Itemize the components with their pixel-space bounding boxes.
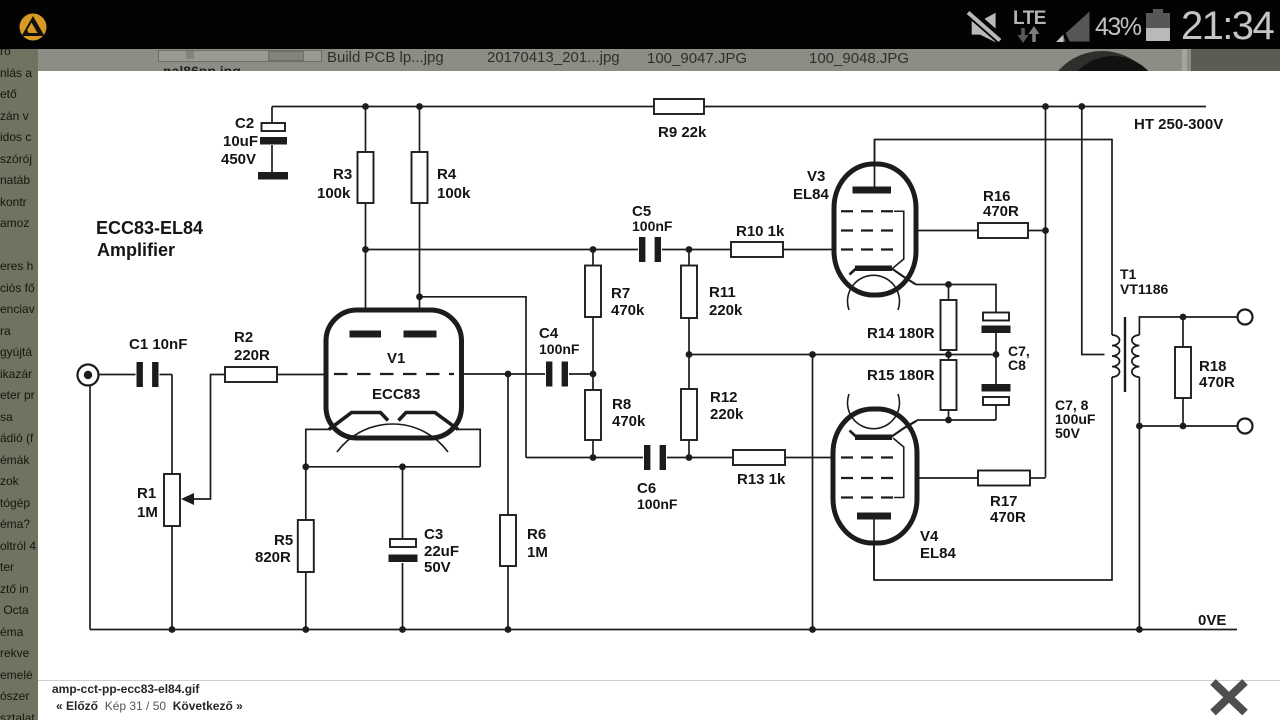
svg-text:0VE: 0VE: [1198, 612, 1226, 629]
svg-text:R2: R2: [234, 329, 253, 346]
svg-text:R6: R6: [527, 526, 546, 543]
svg-text:C6: C6: [637, 480, 656, 497]
svg-text:470R: 470R: [983, 203, 1019, 220]
svg-text:T1: T1: [1120, 266, 1137, 282]
svg-text:470R: 470R: [1199, 374, 1235, 391]
svg-text:10uF: 10uF: [223, 133, 258, 150]
svg-text:C8: C8: [1008, 357, 1026, 373]
svg-text:ECC83-EL84: ECC83-EL84: [96, 218, 203, 238]
svg-text:R9 22k: R9 22k: [658, 124, 707, 141]
svg-text:220k: 220k: [709, 302, 743, 319]
svg-text:43%: 43%: [1095, 13, 1142, 41]
svg-text:100nF: 100nF: [539, 341, 580, 357]
svg-text:R10 1k: R10 1k: [736, 223, 785, 240]
svg-text:470R: 470R: [990, 509, 1026, 526]
svg-text:470k: 470k: [611, 302, 645, 319]
svg-text:100k: 100k: [317, 185, 351, 202]
svg-text:R4: R4: [437, 166, 457, 183]
svg-text:50V: 50V: [424, 559, 451, 576]
svg-text:22uF: 22uF: [424, 543, 459, 560]
svg-text:R18: R18: [1199, 358, 1227, 375]
svg-text:220R: 220R: [234, 347, 270, 364]
svg-text:R3: R3: [333, 166, 352, 183]
svg-text:100nF: 100nF: [637, 496, 678, 512]
svg-text:LTE: LTE: [1013, 8, 1046, 29]
svg-text:R5: R5: [274, 532, 293, 549]
svg-text:ECC83: ECC83: [372, 386, 420, 403]
svg-text:V1: V1: [387, 350, 405, 367]
svg-text:R17: R17: [990, 493, 1018, 510]
svg-text:V4: V4: [920, 528, 939, 545]
svg-text:470k: 470k: [612, 413, 646, 430]
svg-text:820R: 820R: [255, 549, 291, 566]
svg-text:Amplifier: Amplifier: [97, 240, 175, 260]
svg-text:1M: 1M: [527, 544, 548, 561]
svg-text:100k: 100k: [437, 185, 471, 202]
svg-text:21:34: 21:34: [1181, 4, 1274, 48]
svg-text:100nF: 100nF: [632, 218, 673, 234]
svg-text:VT1186: VT1186: [1120, 281, 1168, 297]
svg-text:V3: V3: [807, 168, 825, 185]
svg-text:HT 250-300V: HT 250-300V: [1134, 116, 1223, 133]
svg-text:C3: C3: [424, 526, 443, 543]
svg-text:R11: R11: [709, 284, 736, 301]
svg-text:C4: C4: [539, 325, 559, 342]
svg-text:R13 1k: R13 1k: [737, 471, 786, 488]
svg-text:R15 180R: R15 180R: [867, 367, 935, 384]
svg-text:C2: C2: [235, 115, 254, 132]
svg-text:50V: 50V: [1055, 425, 1081, 441]
svg-text:220k: 220k: [710, 406, 744, 423]
svg-text:R1: R1: [137, 485, 156, 502]
svg-text:R8: R8: [612, 396, 631, 413]
svg-text:C1 10nF: C1 10nF: [129, 336, 187, 353]
svg-text:R7: R7: [611, 285, 630, 302]
svg-text:R12: R12: [710, 389, 738, 406]
svg-text:450V: 450V: [221, 151, 256, 168]
svg-text:EL84: EL84: [920, 545, 957, 562]
svg-text:R14 180R: R14 180R: [867, 325, 935, 342]
svg-text:EL84: EL84: [793, 186, 830, 203]
svg-text:1M: 1M: [137, 504, 158, 521]
